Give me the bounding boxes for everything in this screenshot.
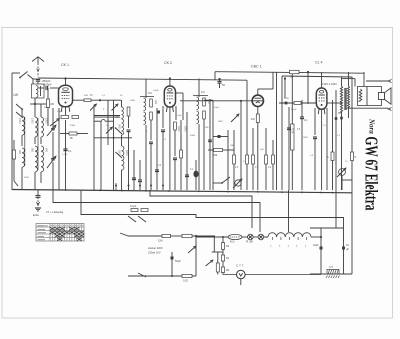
label 100pF [44, 83, 52, 87]
wire rail2 [215, 72, 364, 80]
wire below CK1 [63, 120, 72, 190]
routing line 2 [53, 190, 260, 232]
wire osc rungs [94, 116, 132, 139]
svg-text:16: 16 [346, 244, 349, 247]
svg-text:L: L [271, 246, 273, 248]
svg-text:250pF: 250pF [42, 79, 51, 83]
fuse [158, 234, 171, 242]
svg-text:0,2: 0,2 [268, 167, 272, 169]
tube CK2 [164, 86, 175, 112]
svg-text:R0: R0 [226, 269, 230, 272]
output transformer [340, 72, 349, 190]
res chain R3 [221, 237, 229, 275]
wire CK2 pins [157, 106, 176, 190]
svg-text:5: 5 [355, 155, 357, 159]
trimmer C5 [106, 127, 113, 134]
electro 16uF a [313, 244, 323, 250]
wire comb4 [212, 100, 214, 190]
volume pot [233, 179, 242, 188]
wire right misc [287, 107, 291, 190]
bus stubs [65, 189, 334, 193]
svg-text:100pF: 100pF [44, 83, 52, 87]
coil L2 [22, 148, 24, 190]
svg-text:40,5: 40,5 [230, 242, 235, 244]
svg-text:1000: 1000 [31, 118, 34, 124]
label CK1 [61, 63, 69, 67]
svg-text:50: 50 [222, 83, 225, 87]
svg-text:462: 462 [201, 92, 206, 94]
svg-text:142V o.194V: 142V o.194V [322, 82, 337, 86]
label CL4 [315, 61, 322, 65]
junction top [307, 71, 309, 104]
wire left rail [12, 73, 20, 190]
bottom line right [310, 273, 352, 275]
svg-text:50: 50 [90, 95, 93, 97]
svg-text:8: 8 [146, 131, 148, 133]
svg-text:GW 67 Elektra: GW 67 Elektra [362, 137, 382, 211]
cap CL4 grid2 [300, 100, 308, 190]
res chain R1 [221, 243, 229, 250]
svg-text:0,1µF: 0,1µF [130, 205, 137, 208]
svg-text:5000: 5000 [24, 177, 30, 179]
svg-text:50µF: 50µF [214, 107, 220, 109]
mains bottom wire [128, 273, 196, 277]
det couple caps [281, 102, 301, 190]
svg-text:50Ω: 50Ω [84, 95, 88, 97]
wire CK1 grid cap [38, 86, 59, 90]
switch tone [213, 177, 230, 184]
svg-text:15A: 15A [158, 239, 163, 243]
svg-text:0,1: 0,1 [158, 165, 162, 167]
resistor U5 [326, 266, 340, 278]
af res row [233, 128, 275, 190]
svg-text:0,1: 0,1 [68, 149, 72, 153]
wire speaker tap [342, 79, 356, 87]
wire top rail [38, 78, 247, 145]
svg-text:C Y 7: C Y 7 [236, 264, 244, 268]
speaker [349, 72, 392, 111]
svg-text:0,3: 0,3 [235, 167, 239, 169]
routing line 3 [81, 190, 344, 228]
wire osc v2 [127, 116, 131, 190]
label LW [14, 93, 19, 97]
svg-text:3000: 3000 [184, 126, 187, 132]
svg-text:70: 70 [323, 125, 326, 127]
svg-text:L: L [305, 246, 307, 248]
resistor R2 R3 [48, 116, 79, 127]
svg-text:0,5: 0,5 [255, 167, 259, 169]
svg-text:L: L [288, 246, 290, 248]
coil L5 [35, 146, 38, 190]
svg-text:R 2A: R 2A [290, 128, 293, 134]
dial lamp [228, 234, 242, 243]
cap 100pF af [213, 130, 228, 190]
right pot [337, 168, 346, 190]
tube CY7 [236, 264, 245, 279]
more value labels [24, 90, 348, 179]
svg-text:R0: R0 [51, 102, 55, 106]
resistor R02 [290, 74, 294, 190]
wire CK1 anode top [64, 77, 66, 85]
coil L4 [41, 104, 44, 144]
svg-text:CL 4: CL 4 [315, 61, 322, 65]
svg-text:0,1µF: 0,1µF [57, 111, 63, 113]
selenium [188, 236, 196, 276]
choke out [320, 236, 322, 238]
antenna [32, 57, 44, 77]
switch S3 [115, 127, 122, 158]
wire CK2 right [176, 93, 184, 120]
svg-text:20kΩ: 20kΩ [70, 125, 76, 127]
wire det plate [258, 72, 273, 95]
resistor R1 [46, 88, 54, 118]
wire antenna to coil [37, 81, 39, 84]
wire rail link [342, 179, 353, 181]
wire comb3 [185, 112, 189, 190]
svg-text:R1: R1 [226, 257, 230, 260]
svg-text:3000: 3000 [177, 126, 180, 132]
svg-text:0,1µF: 0,1µF [62, 154, 68, 156]
right res1 [327, 152, 334, 161]
trimmer C4 [112, 104, 119, 111]
wire mid verticals [53, 108, 59, 190]
svg-text:R4: R4 [226, 245, 230, 248]
svg-text:Heizan 220V: Heizan 220V [148, 246, 163, 250]
filter choke [264, 233, 321, 248]
wire CL4 pins [313, 108, 327, 190]
barrel [171, 234, 216, 237]
electrolytic blob [193, 160, 198, 190]
svg-text:Erde: Erde [33, 213, 39, 217]
svg-text:L: L [296, 246, 298, 248]
svg-text:462: 462 [154, 100, 157, 105]
svg-text:50k: 50k [213, 153, 218, 157]
svg-text:900: 900 [18, 150, 21, 155]
svg-text:900: 900 [45, 148, 48, 153]
switch table [36, 224, 84, 242]
antenna coil box [32, 84, 45, 98]
rotated value labels [18, 100, 211, 156]
svg-text:3000: 3000 [118, 150, 121, 156]
bus dots row [115, 183, 164, 190]
svg-text:1000: 1000 [18, 118, 21, 124]
svg-text:0,1: 0,1 [304, 119, 308, 122]
resistor top [290, 70, 300, 78]
svg-text:0,1µF: 0,1µF [176, 115, 182, 117]
wire rail3 [282, 76, 352, 103]
wire AVC line [180, 78, 253, 102]
B+ rails down [310, 228, 344, 274]
CY7 wires [223, 275, 321, 286]
routing line 1 [150, 190, 252, 228]
svg-text:50kΩ: 50kΩ [190, 135, 196, 137]
switch S1 [19, 72, 33, 80]
label CK2 [164, 61, 172, 65]
coil cores [25, 117, 38, 170]
svg-text:U 5: U 5 [329, 266, 334, 269]
svg-text:3000: 3000 [125, 150, 128, 156]
svg-text:CK 1: CK 1 [61, 63, 69, 67]
wire CK2 anode [169, 77, 171, 86]
coil L8 [122, 119, 124, 146]
svg-text:0,5: 0,5 [297, 129, 301, 131]
IF transformer 1 [140, 79, 154, 191]
svg-text:CBC 1: CBC 1 [251, 65, 262, 69]
svg-text:1MΩ: 1MΩ [303, 137, 308, 139]
capacitor antenna 250pF [36, 79, 51, 83]
svg-text:1MΩ: 1MΩ [230, 145, 235, 147]
label 2T [46, 210, 64, 214]
svg-text:30k: 30k [205, 127, 209, 129]
electro 50uF [171, 252, 182, 277]
svg-text:0,1: 0,1 [102, 95, 106, 97]
svg-text:2000: 2000 [130, 100, 136, 102]
trimmer C1 [47, 120, 56, 136]
svg-text:1000: 1000 [45, 118, 48, 124]
svg-text:0,1µF: 0,1µF [291, 109, 297, 111]
svg-text:950: 950 [31, 148, 34, 153]
svg-text:5k: 5k [70, 136, 73, 140]
wire hop [94, 119, 114, 121]
svg-text:0,1: 0,1 [337, 135, 341, 137]
svg-text:LW: LW [14, 93, 19, 97]
lamp pilot [242, 234, 253, 243]
res chain R2 [221, 255, 229, 261]
electro 16uF b [342, 244, 349, 251]
label CBC1 [251, 65, 262, 69]
trimmer C2 [47, 150, 56, 168]
svg-text:25: 25 [345, 161, 348, 163]
bottom bus [12, 190, 352, 193]
svg-text:30: 30 [120, 95, 123, 97]
title Nora [368, 118, 376, 134]
svg-text:1M: 1M [251, 117, 255, 121]
right rails [277, 72, 353, 274]
svg-text:2MΩ: 2MΩ [218, 121, 223, 123]
misc value labels [56, 92, 301, 171]
IF transformer 2 [193, 79, 208, 191]
label 142V [322, 82, 337, 86]
right res2 [351, 152, 357, 161]
lamp pilot2 [253, 234, 268, 240]
svg-text:5: 5 [327, 155, 329, 159]
cap IF1 [138, 160, 142, 190]
svg-text:L: L [279, 246, 281, 248]
heater feed [196, 236, 228, 238]
svg-text:50µF: 50µF [175, 259, 181, 263]
svg-text:0,02: 0,02 [183, 280, 188, 283]
cap 50pF det [218, 79, 226, 89]
svg-text:10: 10 [106, 125, 109, 127]
svg-text:5000: 5000 [284, 98, 290, 100]
mains top wire [120, 233, 162, 236]
svg-text:3000: 3000 [118, 124, 121, 130]
wire comb2 [180, 120, 183, 190]
trimmer det [231, 101, 241, 190]
IF2 caps [204, 99, 213, 190]
cap 0,1 bot1 [132, 150, 136, 190]
wire comb1 [155, 108, 159, 190]
wire grid line [73, 99, 102, 102]
tube CK1 [59, 85, 73, 112]
svg-text:0,2: 0,2 [163, 139, 167, 141]
svg-text:Pl, 5M: Pl, 5M [246, 241, 253, 244]
svg-text:462: 462 [148, 93, 153, 95]
wire det out [251, 107, 259, 191]
svg-text:220an 10V: 220an 10V [148, 251, 161, 255]
coil L7 [114, 100, 130, 118]
mains switch [128, 205, 148, 222]
ground cap bottom-left [33, 190, 41, 217]
svg-text:Nora: Nora [368, 118, 376, 134]
vdr branch [206, 237, 224, 275]
svg-text:16µF: 16µF [313, 244, 319, 247]
coil L6 [41, 146, 44, 183]
svg-text:462: 462 [208, 100, 211, 105]
coil L3 [35, 104, 38, 144]
resistor R4 [60, 132, 88, 140]
wire coil tops [30, 98, 46, 105]
right caps [335, 112, 343, 120]
title GW 67 Elektra [362, 137, 382, 211]
tube CL4 [316, 88, 327, 114]
svg-text:µF: µF [346, 248, 349, 251]
wire CL4 top [279, 72, 342, 103]
switch S2 [16, 104, 23, 118]
wire osc rails [94, 100, 114, 190]
svg-text:0,1: 0,1 [190, 169, 194, 171]
cap CK2 cath [161, 122, 177, 190]
svg-text:CK 2: CK 2 [164, 61, 172, 65]
svg-text:5µF: 5µF [260, 149, 264, 151]
fuse2 [182, 274, 192, 282]
svg-text:0,5µF: 0,5µF [153, 90, 159, 92]
cap CL4 grid [284, 77, 286, 98]
svg-text:2T + L Eisenkg: 2T + L Eisenkg [46, 210, 64, 214]
resistor 50k [208, 149, 234, 158]
routing line 4 [288, 190, 290, 232]
label mains [148, 246, 163, 255]
trimmer C3 [90, 104, 97, 111]
wire CK1 cathode [65, 107, 67, 115]
coil L1 [22, 108, 24, 146]
coil L9 [122, 146, 124, 190]
wire det rail [0, 0, 1, 1]
resistor left [12, 140, 18, 186]
wire input top [33, 79, 38, 84]
svg-text:0,3: 0,3 [310, 155, 314, 157]
svg-text:2: 2 [103, 109, 105, 111]
tube CBC1 [252, 95, 263, 106]
